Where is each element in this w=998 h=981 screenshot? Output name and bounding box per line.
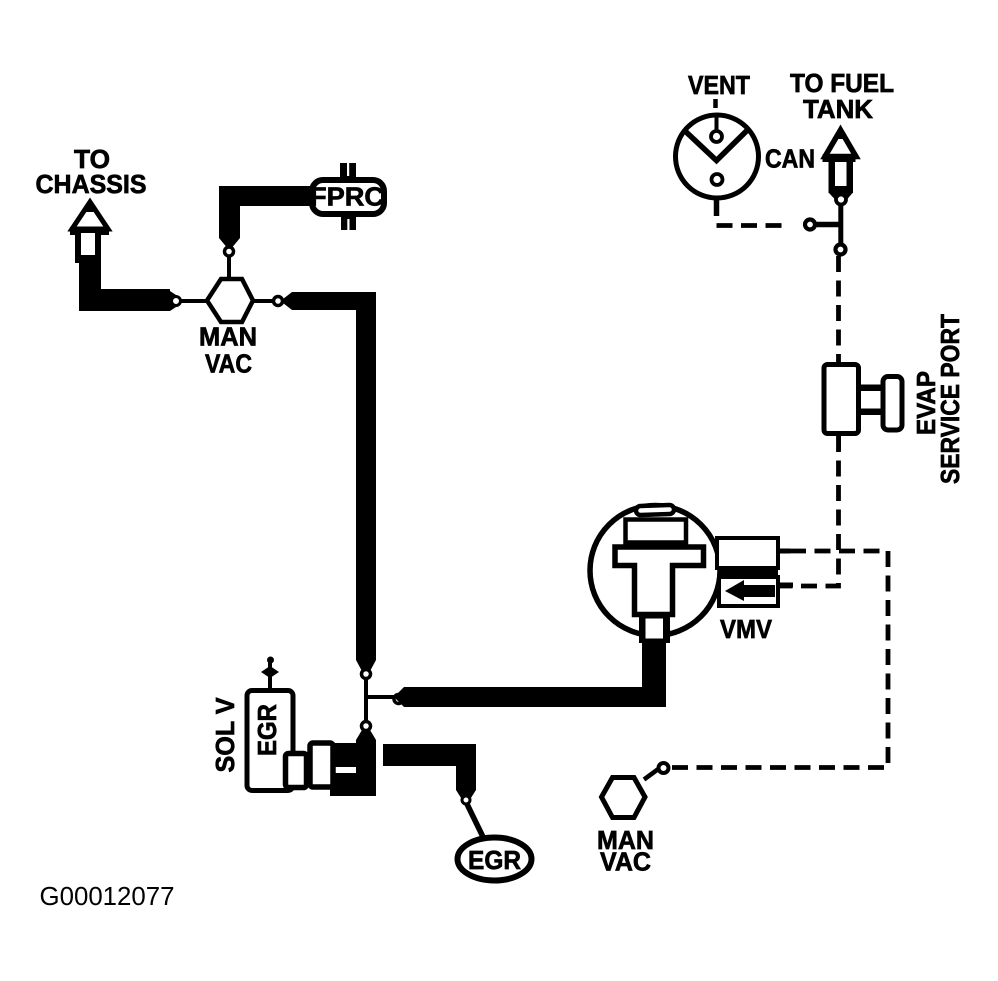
svg-text:EGR: EGR: [468, 845, 521, 875]
svg-text:MAN: MAN: [199, 322, 257, 352]
svg-text:FPRC: FPRC: [310, 182, 384, 212]
svg-text:VAC: VAC: [600, 847, 651, 877]
svg-text:SERVICE PORT: SERVICE PORT: [935, 314, 965, 484]
svg-text:VENT: VENT: [688, 70, 750, 100]
svg-text:EGR: EGR: [252, 704, 282, 756]
svg-text:SOL V: SOL V: [210, 697, 240, 773]
svg-text:VAC: VAC: [205, 349, 252, 379]
svg-text:VMV: VMV: [720, 614, 773, 644]
svg-text:G00012077: G00012077: [40, 881, 175, 911]
svg-text:CHASSIS: CHASSIS: [36, 169, 147, 199]
svg-text:CAN: CAN: [765, 144, 815, 174]
svg-text:TANK: TANK: [803, 94, 873, 124]
